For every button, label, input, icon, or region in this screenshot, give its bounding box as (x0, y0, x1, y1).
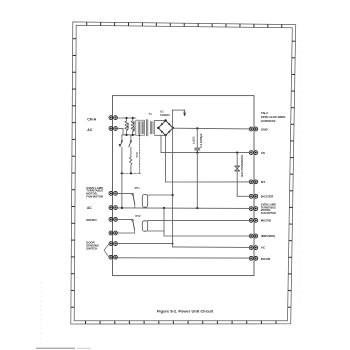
wire C1 top lead (196, 128, 198, 147)
node bottom rail / VRS1 (125, 134, 127, 136)
wire monitor switch to AC rail (121, 173, 123, 208)
transformer T1 primary (136, 120, 145, 135)
dashed linkage line horizontal (121, 172, 141, 174)
wire MICRO pin b (116, 232, 135, 234)
wire RY1 contact to rail (134, 204, 136, 208)
node bridge bottom (164, 134, 166, 136)
connector pin door sense a (109, 242, 117, 246)
node C1 bottom / VS rail (196, 152, 198, 154)
piezo buzzer BZ1 PKM22EPH (235, 165, 240, 167)
connector pin MT (249, 180, 257, 184)
wire switch 2 mid (130, 147, 132, 157)
wire RY2 coil bottom (148, 230, 164, 232)
interlock switch SW1 contact (121, 141, 123, 143)
svg-text:(BROWN): (BROWN) (261, 234, 275, 238)
svg-text:BZ1 PKM22EPH: BZ1 PKM22EPH (240, 155, 244, 177)
node brown drop / oven rail (163, 207, 165, 209)
connector pin oven lamp / turntable / fan motor (109, 192, 117, 196)
connector pin CN-C GND (249, 127, 257, 131)
node switch 1 throw (119, 144, 121, 146)
thermal element zigzag (129, 157, 132, 165)
relay RY1 contact (132, 194, 134, 196)
svg-text:FAN MOTOR: FAN MOTOR (86, 195, 103, 199)
wire AC out rail (173, 246, 252, 249)
svg-text:FAN MOTOR: FAN MOTOR (261, 212, 276, 215)
svg-text:CN-A: CN-A (87, 118, 96, 122)
wire secondary bottom to bridge (154, 134, 165, 136)
wire C1 bottom lead (196, 150, 198, 152)
node bridge right (172, 127, 174, 129)
wire stub top (173, 109, 185, 111)
connector pin door sense b (109, 255, 117, 259)
svg-text:(+)C1: (+)C1 (192, 136, 196, 144)
relay RY2 coil (142, 221, 147, 231)
wire bridge right down long (172, 128, 174, 247)
svg-text:Figure 8-2. Power Unit Circuit: Figure 8-2. Power Unit Circuit (157, 309, 214, 314)
connector pin VS (249, 151, 257, 155)
connector pin CN-A line (109, 116, 117, 120)
connector pin AC line (109, 127, 117, 131)
wire switch 1 lower (121, 147, 123, 173)
connector pin BROWN (249, 234, 257, 238)
svg-text:MICRO: MICRO (86, 218, 97, 222)
varistor VRS1 (125, 118, 128, 134)
wire to buzzer (236, 153, 238, 166)
wire secondary top to bridge (154, 120, 165, 122)
wire BUZZER rail (237, 195, 251, 197)
power unit board outline (113, 96, 255, 276)
svg-text:DOOR: DOOR (261, 257, 271, 261)
wire elbow down (122, 129, 124, 135)
connector pin DOOR (249, 256, 257, 260)
svg-text:RY1: RY1 (135, 186, 141, 190)
wire bridge right up (172, 110, 174, 128)
connector pin BUZZER (249, 194, 257, 198)
connector pin MICRO a (109, 218, 117, 222)
chassis arrow symbol (183, 113, 186, 116)
svg-text:HARNESS: HARNESS (261, 119, 276, 123)
wire oven lamp pin to RY1 (116, 192, 132, 194)
wire MICRO rail (148, 219, 252, 221)
svg-text:10D471K: 10D471K (132, 121, 136, 132)
wire buzzer to buzzer rail (236, 172, 238, 197)
wire MICRO pin to RY2 (116, 218, 132, 220)
wire AC bottom rail (123, 134, 136, 136)
svg-text:AC: AC (87, 206, 92, 210)
wire to interlock switch 2 (130, 135, 132, 141)
node C1 top (196, 127, 198, 129)
wire door sense a (116, 243, 173, 245)
connector pin AC out (249, 246, 257, 250)
node bridge top (164, 119, 166, 121)
svg-text:GND: GND (261, 128, 269, 132)
node linkage / switch 1 (121, 172, 123, 174)
diode bridge D1 S1NB10 (158, 121, 173, 136)
wire DOOR rail (116, 257, 252, 259)
svg-text:AC: AC (87, 128, 93, 132)
diode marks on bridge edges (161, 123, 171, 133)
wire switch 2 lower (130, 165, 132, 173)
svg-text:BUZZER: BUZZER (261, 195, 274, 199)
dashed linkage line vertical (138, 135, 140, 173)
wire AC top rail (116, 117, 136, 119)
wire vd (163, 208, 165, 236)
relay RY2 contact (132, 220, 134, 222)
wire MT rail (166, 181, 252, 183)
wire secondary tap down (160, 135, 162, 152)
interlock switch SW2 contact (130, 141, 132, 143)
node top rail / VRS1 (125, 117, 127, 119)
node door sense / vc (172, 243, 174, 245)
svg-text:AC: AC (261, 246, 266, 250)
wire ve (196, 153, 198, 208)
wire RY1 coil top (148, 194, 173, 196)
svg-text:VRS1: VRS1 (126, 122, 130, 130)
node buzzer top / VS rail (236, 152, 238, 154)
svg-text:S1NB10: S1NB10 (160, 113, 170, 117)
node bottom rail / C filter (132, 134, 134, 136)
svg-text:T1: T1 (149, 112, 153, 116)
wire RY1 coil bottom stub (144, 206, 146, 209)
relay RY1 coil (142, 195, 147, 208)
wire to interlock switch 1 (121, 135, 123, 141)
connector pin MICRO b (109, 231, 117, 235)
svg-text:MICRO: MICRO (261, 219, 272, 223)
svg-text:RY2: RY2 (135, 214, 141, 218)
svg-text:VS: VS (261, 151, 265, 155)
transformer T1 secondary (150, 122, 154, 134)
wire oven lamp rail (116, 207, 252, 210)
node primary bottom / linkage (139, 134, 141, 136)
wire stub down (184, 110, 186, 113)
wire from AC pin (116, 128, 123, 130)
connector pin AC 2 (109, 206, 117, 210)
node linkage / switch 2 (130, 172, 132, 174)
connector pin MICRO (249, 219, 257, 223)
wire RY2 contact down (134, 230, 136, 233)
svg-text:TCO: TCO (135, 152, 139, 157)
connector pin oven lamp group (249, 207, 257, 211)
transformer T1 core (145, 120, 147, 136)
svg-text:C1 2200µF: C1 2200µF (199, 133, 203, 148)
wire VS rail (161, 152, 251, 154)
wire GND rail (173, 127, 251, 130)
capacitor/varistor 10D471K (131, 118, 134, 134)
wire BROWN rail (164, 235, 251, 237)
svg-text:MT: MT (261, 180, 266, 184)
svg-text:SWITCH: SWITCH (86, 247, 97, 251)
wire bridge bottom down (165, 135, 167, 182)
node monitor / oven rail (121, 207, 123, 209)
node ve / oven rail (196, 207, 198, 209)
door switch bracket (104, 244, 109, 258)
node top rail / C filter (132, 117, 134, 119)
node RY1 coil / vc (172, 194, 174, 196)
node bridge left (157, 127, 159, 129)
